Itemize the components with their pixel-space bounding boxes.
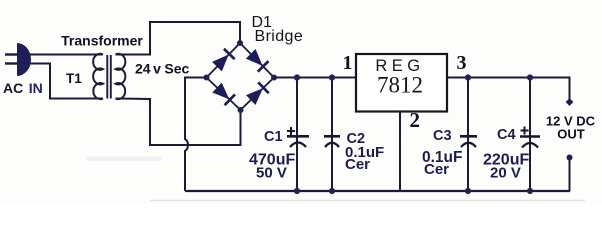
transformer core bbox=[106, 55, 108, 99]
svg-text:Cer: Cer bbox=[424, 161, 449, 178]
wire plug top to transformer primary bbox=[30, 54, 103, 56]
capacitor C4 wire bbox=[529, 78, 531, 192]
output terminal minus bbox=[567, 155, 573, 161]
output terminal plus bbox=[566, 98, 574, 106]
capacitor C4 top plate bbox=[520, 135, 540, 138]
diode D1a upper-left bbox=[212, 49, 235, 72]
transformer T1 secondary coil bbox=[116, 54, 126, 99]
wire pin 2 to ground bbox=[399, 111, 401, 191]
wire ground rail to output terminal minus bbox=[569, 159, 571, 191]
AC plug P1 bbox=[5, 43, 31, 76]
capacitor C1 wire bbox=[296, 78, 298, 192]
watermark smudge bbox=[86, 157, 161, 162]
node C4 bottom bbox=[527, 188, 533, 194]
capacitor C3 wire bbox=[467, 78, 469, 192]
diode D1c lower-left bbox=[212, 82, 235, 105]
svg-text:3: 3 bbox=[457, 52, 467, 74]
svg-text:Cer: Cer bbox=[345, 156, 370, 173]
regulator U1 box bbox=[356, 54, 447, 112]
node C2 top bbox=[329, 74, 335, 80]
svg-text:1: 1 bbox=[343, 52, 353, 74]
transformer T1 primary coil bbox=[93, 54, 103, 99]
wire bridge left vertex to ground rail (with hop over AC wire) bbox=[185, 78, 207, 192]
node C4 top bbox=[527, 74, 533, 80]
svg-text:Transformer: Transformer bbox=[61, 33, 143, 49]
capacitor C3 top plate bbox=[460, 135, 477, 138]
svg-text:T1: T1 bbox=[66, 71, 82, 86]
svg-text:7812: 7812 bbox=[377, 73, 423, 98]
node bridge bottom bbox=[238, 107, 244, 113]
capacitor C3 curved plate bbox=[461, 143, 476, 147]
wire secondary top to bridge top node bbox=[116, 22, 241, 55]
svg-text:C1: C1 bbox=[264, 129, 283, 145]
node bridge left bbox=[204, 75, 210, 81]
C4 plus sign bbox=[521, 127, 529, 135]
node C3 top bbox=[465, 74, 471, 80]
svg-text:OUT: OUT bbox=[557, 127, 585, 142]
node bridge top bbox=[237, 40, 243, 46]
capacitor C2 curved plate bbox=[325, 143, 339, 147]
svg-text:ACIN: ACIN bbox=[3, 80, 43, 96]
node C1 top bbox=[294, 74, 300, 80]
svg-text:C4: C4 bbox=[497, 127, 516, 143]
node C3 bottom bbox=[465, 188, 471, 194]
watermark artifact line bbox=[150, 200, 585, 202]
bridge D1 diamond edges bbox=[207, 43, 275, 110]
svg-text:20 V: 20 V bbox=[490, 165, 521, 182]
capacitor C4 curved plate bbox=[522, 143, 538, 148]
ground rail bbox=[185, 190, 570, 192]
svg-text:50 V: 50 V bbox=[256, 165, 287, 182]
svg-text:Bridge: Bridge bbox=[255, 28, 304, 45]
capacitor C1 curved plate bbox=[290, 143, 306, 148]
wire bridge right vertex to regulator input bbox=[274, 77, 356, 79]
capacitor C2 top plate bbox=[324, 135, 340, 138]
capacitor C2 wire bbox=[331, 78, 333, 192]
wire regulator output to output terminal corner bbox=[447, 78, 570, 100]
diode D1b upper-right bbox=[245, 49, 268, 72]
wire secondary bottom to bridge bottom node bbox=[116, 99, 241, 146]
svg-text:2: 2 bbox=[410, 108, 421, 132]
node C1 bottom bbox=[294, 188, 300, 194]
diode D1d lower-right bbox=[246, 82, 269, 105]
node bridge right bbox=[271, 75, 277, 81]
svg-text:C3: C3 bbox=[433, 128, 452, 144]
node C2 bottom bbox=[329, 188, 335, 194]
wire plug bottom to transformer primary bbox=[30, 64, 103, 99]
C1 plus sign bbox=[287, 127, 295, 135]
capacitor C1 top plate bbox=[287, 135, 309, 138]
